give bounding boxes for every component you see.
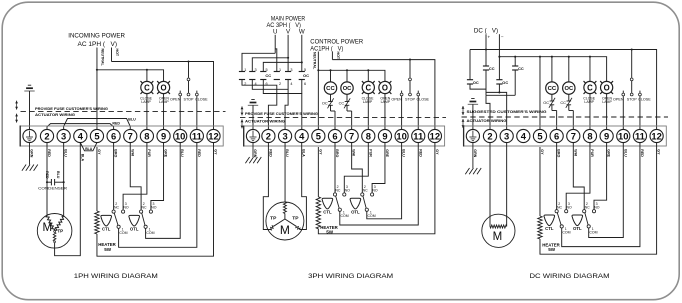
DC terminal 11	[633, 129, 646, 142]
svg-text:11: 11	[192, 131, 202, 142]
svg-text:SUGGESTED CUSTOMER'S WIRING: SUGGESTED CUSTOMER'S WIRING	[467, 110, 547, 114]
svg-text:NO: NO	[594, 205, 600, 209]
1PH internal earth symbol	[28, 84, 31, 86]
jumper BLA terminal 4 to terminal 5	[80, 143, 97, 151]
1PH terminal 7	[124, 129, 137, 142]
svg-text:GRE: GRE	[385, 149, 389, 157]
3PH terminal 11	[412, 129, 425, 142]
svg-text:COM: COM	[146, 231, 154, 235]
1PH terminal 12	[207, 129, 220, 142]
svg-text:CLOSE: CLOSE	[195, 98, 208, 102]
wire - bus drop to terminal 5 (DC)	[539, 57, 541, 130]
svg-text:7: 7	[349, 131, 354, 142]
DC terminal 6	[550, 129, 563, 142]
wire merge bar to terminal 2 (DC)	[486, 94, 515, 96]
wire lamp O to terminal 9	[163, 94, 165, 130]
svg-text:C: C	[144, 83, 150, 92]
DC terminal 10	[617, 129, 630, 142]
svg-text:LAMP: LAMP	[602, 100, 612, 104]
motor M (1PH)	[37, 214, 72, 249]
svg-text:1: 1	[279, 68, 281, 72]
svg-text:TP: TP	[57, 229, 63, 234]
wire RED run terminal 2 to terminal 6	[47, 124, 114, 130]
CTL limit switch (1PH) NC contact (pin 2)	[112, 210, 115, 213]
wire terminal 2 to motor	[46, 143, 48, 216]
svg-text:3: 3	[255, 68, 257, 72]
svg-text:GRN: GRN	[473, 149, 477, 157]
svg-text:TP: TP	[292, 216, 299, 222]
svg-text:NO: NO	[345, 189, 351, 193]
wire riser OC contact left	[469, 50, 471, 80]
svg-text:BLU: BLU	[285, 149, 289, 157]
wire terminal 8 to CTL NO	[123, 143, 147, 210]
1PH terminal 9	[157, 129, 170, 142]
svg-text:STOP: STOP	[184, 98, 195, 102]
svg-text:12: 12	[208, 131, 218, 142]
wire U to OC contact 1	[275, 49, 277, 72]
wire terminal 9 to OTL NO (3PH)	[372, 143, 385, 193]
3PH terminal 3	[278, 129, 291, 142]
svg-text:PROVIDE FUSE CUSTOMER'S WIRING: PROVIDE FUSE CUSTOMER'S WIRING	[245, 112, 318, 116]
wire control HOT stub	[331, 52, 333, 60]
svg-text:OTL: OTL	[351, 210, 360, 215]
wire riser CC contact right	[514, 57, 516, 66]
heater feed from terminal 5 (DC)	[539, 147, 541, 216]
svg-text:BRO: BRO	[114, 149, 118, 157]
svg-text:10: 10	[396, 131, 406, 142]
svg-text:ACTUATOR WIRING: ACTUATOR WIRING	[35, 113, 75, 117]
wire colour labels below strip DC	[473, 149, 661, 157]
DC ground terminal	[466, 129, 479, 142]
CTL limit switch (DC) blade COM-NC	[557, 213, 561, 225]
svg-text:CC: CC	[560, 100, 566, 105]
OTL limit switch (3PH) NC contact (pin 2)	[361, 193, 364, 196]
wire lamp C to terminal 8	[146, 94, 148, 130]
DC terminal 3	[500, 129, 513, 142]
svg-text:5: 5	[94, 131, 99, 142]
svg-text:3PH WIRING DIAGRAM: 3PH WIRING DIAGRAM	[308, 273, 393, 280]
svg-text:GY: GY	[435, 149, 439, 155]
svg-text:WHI: WHI	[352, 149, 356, 156]
wire OTL COM to terminal 10 (DC)	[589, 143, 624, 238]
wire CTL COM to terminal 11 (DC)	[562, 143, 640, 247]
svg-text:BRO: BRO	[335, 149, 339, 157]
3PH terminal 7	[345, 129, 358, 142]
svg-text:GY: GY	[657, 149, 661, 155]
thermal protector TP (1PH)	[54, 231, 56, 233]
svg-text:CC: CC	[339, 101, 345, 106]
wire colour labels below strip 3PH	[253, 149, 439, 157]
svg-text:1: 1	[244, 68, 246, 72]
svg-text:3: 3	[61, 131, 66, 142]
wire terminal 2 to motor bracket left	[263, 143, 270, 230]
contactor main contact OC pole 3-4	[285, 68, 292, 86]
svg-text:2: 2	[44, 131, 49, 142]
svg-text:GRE: GRE	[607, 149, 611, 157]
svg-text:RED: RED	[418, 149, 422, 157]
OTL limit switch (1PH) NO contact (pin 3)	[149, 210, 152, 213]
wire terminal 7 to OTL NC (3PH)	[352, 143, 363, 193]
1PH terminal 5	[90, 129, 103, 142]
wire merge contacts 2 to terminal 2	[242, 80, 277, 130]
svg-text:AC 3PH ( V): AC 3PH ( V)	[267, 22, 301, 29]
svg-text:U: U	[273, 28, 277, 35]
push button OPEN (1PH)	[179, 91, 182, 130]
3PH terminal 4	[295, 129, 308, 142]
indicator lamp CLOSE LAMP (3PH)	[362, 81, 375, 94]
CTL limit switch (3PH) NC contact (pin 2)	[333, 193, 336, 196]
svg-text:8: 8	[587, 131, 592, 142]
wire phase V	[287, 35, 289, 72]
CTL limit switch (3PH) blade COM-NC	[336, 196, 340, 208]
svg-text:STOP: STOP	[627, 98, 638, 102]
svg-text:12: 12	[430, 131, 440, 142]
CTL limit switch (3PH) COM contact (pin 1)	[338, 208, 341, 211]
1PH protective earth (hatched ground)	[29, 143, 31, 165]
DC terminal 9	[600, 129, 613, 142]
DC terminal 7	[567, 129, 580, 142]
svg-text:NC: NC	[585, 205, 591, 209]
1PH ground terminal	[23, 129, 36, 142]
motor winding centre (3PH)	[283, 202, 286, 214]
svg-text:8: 8	[366, 131, 371, 142]
svg-text:LAMP: LAMP	[381, 100, 391, 104]
DC protective earth (hatched ground)	[472, 143, 474, 168]
CTL limit switch (DC) NO contact (pin 3)	[565, 210, 568, 213]
wire terminal 6 to CTL NC (3PH)	[334, 143, 336, 193]
svg-text:COM: COM	[341, 214, 349, 218]
DC boundary arrows	[462, 106, 464, 115]
svg-text:6: 6	[304, 82, 306, 86]
wire W to CC contact 5	[263, 62, 302, 71]
3PH terminal 2	[262, 129, 275, 142]
svg-text:OC: OC	[343, 86, 352, 92]
svg-text:RED: RED	[45, 171, 49, 179]
push button OPEN (DC)	[622, 91, 625, 130]
svg-text:NO: NO	[151, 206, 157, 210]
svg-text:+: +	[487, 34, 490, 39]
push button CLOSE (3PH)	[417, 91, 420, 130]
wire terminal 7 to OTL NC	[130, 143, 141, 210]
svg-text:6: 6	[111, 131, 116, 142]
svg-text:8: 8	[144, 131, 149, 142]
wire merge contacts 6 to terminal 4	[263, 80, 302, 130]
svg-text:4: 4	[78, 131, 84, 142]
heater 5W resistor (DC)	[538, 216, 542, 239]
contactor coil CC (DC)	[546, 82, 558, 94]
svg-text:5: 5	[266, 68, 268, 72]
svg-text:CLOSE: CLOSE	[638, 98, 651, 102]
svg-text:5: 5	[304, 68, 306, 72]
svg-text:NC: NC	[335, 189, 341, 193]
svg-text:RED: RED	[197, 149, 201, 157]
svg-text:PROVIDE FUSE CUSTOMER'S WIRING: PROVIDE FUSE CUSTOMER'S WIRING	[35, 107, 108, 111]
svg-text:RED: RED	[112, 122, 120, 126]
svg-text:HOT: HOT	[336, 52, 340, 60]
1PH terminal 4	[74, 129, 87, 142]
svg-text:OC: OC	[565, 86, 574, 92]
wire CC pole a bottom	[485, 70, 487, 95]
svg-text:BLU: BLU	[128, 117, 136, 121]
wire OC pole b bottom to terminal 3 (DC)	[498, 84, 500, 92]
wire terminal 3 to motor (DC)	[506, 143, 508, 227]
svg-text:M: M	[493, 231, 503, 243]
contactor main contact OC pole 5-6	[299, 68, 306, 86]
svg-text:CC: CC	[489, 66, 495, 71]
svg-text:6: 6	[554, 131, 559, 142]
1PH boundary arrows	[16, 101, 18, 110]
wire lamp O to terminal 9 (DC)	[606, 94, 608, 130]
CTL limit switch (1PH) cam	[101, 215, 112, 226]
svg-text:WHI: WHI	[573, 149, 577, 156]
1PH terminal 2	[40, 129, 53, 142]
svg-text:7: 7	[128, 131, 133, 142]
wire merge contacts 4 to terminal 3	[252, 80, 288, 130]
wire lamp C drop (DC)	[589, 57, 591, 82]
svg-text:CTL: CTL	[102, 227, 111, 232]
svg-text:3: 3	[290, 68, 292, 72]
1PH terminal 3	[57, 129, 70, 142]
indicator lamp OPEN LAMP (3PH)	[379, 81, 392, 94]
heater feed from terminal 5 (3PH)	[317, 147, 319, 197]
indicator lamp CLOSE LAMP (DC)	[584, 81, 597, 94]
svg-text:BLA: BLA	[80, 154, 84, 162]
1PH terminal 6	[107, 129, 120, 142]
svg-text:NO: NO	[566, 205, 572, 209]
svg-text:ACTUATOR WIRING: ACTUATOR WIRING	[467, 119, 507, 123]
wire terminal 9 to OTL NO	[151, 143, 164, 210]
wire phase U	[274, 35, 276, 54]
push button STOP (DC) (NC)	[630, 50, 633, 96]
svg-text:W: W	[299, 28, 305, 35]
terminal strip 3PH	[244, 126, 445, 146]
svg-text:OPEN: OPEN	[613, 98, 624, 102]
wire terminal 6 to CTL NC	[113, 143, 115, 210]
3PH terminal 12	[428, 129, 441, 142]
svg-text:CLOSE: CLOSE	[416, 98, 429, 102]
svg-text:BLU: BLU	[623, 149, 627, 157]
OTL limit switch (DC) NC contact (pin 2)	[583, 210, 586, 213]
svg-text:PUR: PUR	[590, 149, 594, 157]
svg-text:O: O	[604, 83, 610, 92]
motor armature winding (DC)	[490, 225, 507, 228]
svg-text:11: 11	[635, 131, 645, 142]
1PH terminal 8	[140, 129, 153, 142]
svg-text:GRN: GRN	[30, 149, 34, 157]
contactor coil OC	[341, 82, 353, 94]
motor arm right with TP	[285, 219, 296, 226]
motor arm left with TP	[274, 219, 285, 226]
CTL limit switch (DC) COM contact (pin 1)	[560, 225, 563, 228]
auxiliary NC interlock contact CC aux under OC coil (DC)	[566, 94, 574, 129]
svg-text:OPEN: OPEN	[170, 98, 181, 102]
wire lamp O to terminal 9 (3PH)	[384, 94, 386, 130]
DC terminal 4	[517, 129, 530, 142]
wire control NEUTRAL to terminal 5	[317, 52, 319, 130]
svg-text:2: 2	[487, 131, 492, 142]
contactor main contact OC pole 1-2	[274, 68, 281, 86]
svg-text:4: 4	[299, 131, 305, 142]
wire terminal 6 to CTL NC (DC)	[556, 143, 558, 210]
svg-text:3: 3	[282, 131, 287, 142]
wire terminal 4 to motor bracket right	[299, 143, 306, 230]
svg-text:M: M	[43, 222, 53, 234]
1PH terminal 11	[190, 129, 203, 142]
svg-text:−: −	[501, 35, 504, 40]
svg-text:PUR: PUR	[147, 149, 151, 157]
contactor coil CC	[324, 82, 336, 94]
indicator lamp CLOSE LAMP (1PH)	[140, 81, 153, 94]
auxiliary NC interlock contact OC aux under CC coil (DC)	[549, 94, 557, 129]
wire + feed	[485, 34, 487, 66]
svg-text:GY: GY	[97, 149, 101, 155]
wire V to CC contact 3	[252, 58, 288, 72]
svg-text:TP: TP	[270, 216, 277, 222]
svg-text:GY: GY	[214, 149, 218, 155]
wire heater to terminal 12 return (3PH)	[318, 143, 435, 234]
wire terminal 2 to motor (DC)	[489, 143, 491, 227]
svg-text:LAMP: LAMP	[159, 100, 169, 104]
wire HOT feed stub	[111, 48, 113, 62]
3PH terminal 5	[312, 129, 325, 142]
3PH customer/actuator boundary dashed line	[240, 116, 446, 118]
wire OC pole bottoms	[287, 80, 289, 90]
svg-text:7: 7	[571, 131, 576, 142]
svg-text:NEUTRAL: NEUTRAL	[313, 52, 317, 70]
wire U to CC contact 1	[242, 53, 275, 71]
svg-text:OC: OC	[543, 100, 549, 105]
contactor main contact CC pole 1-2	[239, 68, 246, 86]
wire OC coil drop (DC)	[568, 57, 570, 82]
svg-text:NO: NO	[372, 189, 378, 193]
svg-text:M: M	[280, 223, 290, 237]
wire lamp C drop (3PH)	[367, 70, 369, 81]
DC internal earth symbol	[471, 98, 474, 100]
3PH protective earth (hatched ground)	[252, 143, 254, 157]
svg-text:10: 10	[618, 131, 628, 142]
wire - feed	[498, 34, 500, 79]
wire terminal 7 to OTL NC (DC)	[573, 143, 584, 210]
3PH terminal 8	[362, 129, 375, 142]
wire terminal 8 to CTL NO (DC)	[566, 143, 590, 210]
svg-text:CC: CC	[265, 73, 271, 78]
svg-text:RED: RED	[640, 149, 644, 157]
svg-text:AC 1PH ( V): AC 1PH ( V)	[78, 41, 118, 48]
wire OC coil drop	[346, 70, 348, 82]
CTL limit switch (1PH) COM contact (pin 1)	[117, 225, 120, 228]
svg-text:NC: NC	[141, 206, 147, 210]
OTL limit switch (3PH) NO contact (pin 3)	[371, 193, 374, 196]
CTL limit switch (3PH) NO contact (pin 3)	[343, 193, 346, 196]
svg-text:CC: CC	[518, 66, 524, 71]
svg-text:BLU: BLU	[64, 149, 68, 157]
wire lamp C drop	[146, 70, 148, 82]
wire OC pole a bottom + bar	[470, 84, 486, 89]
svg-text:COM: COM	[562, 231, 570, 235]
motor M (DC)	[482, 214, 515, 247]
indicator lamp OPEN LAMP (1PH)	[157, 81, 170, 94]
OTL limit switch (1PH) cam	[129, 215, 140, 226]
OTL limit switch (DC) NO contact (pin 3)	[592, 210, 595, 213]
svg-text:NO: NO	[123, 206, 129, 210]
svg-text:WHI: WHI	[130, 149, 134, 156]
svg-text:CC: CC	[326, 86, 335, 92]
OTL limit switch (1PH) NC contact (pin 2)	[140, 210, 143, 213]
svg-text:O: O	[382, 83, 388, 92]
svg-text:ACTUATOR WIRING: ACTUATOR WIRING	[245, 119, 285, 123]
svg-text:6: 6	[332, 131, 337, 142]
DC terminal 5	[533, 129, 546, 142]
wire OTL COM to terminal 10 (3PH)	[367, 143, 402, 219]
svg-text:11: 11	[413, 131, 423, 142]
svg-text:BLU: BLU	[56, 171, 60, 179]
svg-text:NC: NC	[114, 206, 120, 210]
contactor contact CC pole a (DC)	[483, 66, 495, 71]
push button CLOSE (DC)	[639, 91, 642, 130]
svg-text:DC ( V): DC ( V)	[474, 27, 498, 34]
svg-text:BLU: BLU	[402, 149, 406, 157]
svg-text:O: O	[161, 83, 167, 92]
DC terminal 8	[583, 129, 596, 142]
svg-text:NEUTRAL: NEUTRAL	[100, 49, 104, 67]
svg-text:4: 4	[290, 82, 292, 86]
svg-text:GRN: GRN	[253, 149, 257, 157]
OTL limit switch (1PH) COM contact (pin 1)	[144, 225, 147, 228]
wire CTL COM to terminal 11	[119, 143, 197, 248]
OTL limit switch (DC) cam	[572, 215, 583, 226]
wire colour labels below strip 1PH	[30, 149, 218, 161]
DC terminal 12	[650, 129, 663, 142]
OTL limit switch (3PH) blade COM-NC	[363, 196, 366, 208]
wire terminal 9 to OTL NO (DC)	[594, 143, 607, 210]
svg-text:3: 3	[504, 131, 509, 142]
svg-text:DC WIRING DIAGRAM: DC WIRING DIAGRAM	[530, 273, 610, 280]
svg-text:CONDENSER: CONDENSER	[38, 186, 67, 190]
wire CC coil drop	[330, 70, 332, 82]
svg-text:BRO: BRO	[557, 149, 561, 157]
push button STOP (3PH) (NC)	[409, 60, 412, 96]
3PH terminal 10	[395, 129, 408, 142]
svg-text:5: 5	[316, 131, 321, 142]
wire neutral branch to lamps	[97, 70, 164, 82]
svg-text:OC: OC	[502, 80, 508, 85]
wire BLU run terminal 3 to terminal 7	[64, 119, 131, 130]
svg-text:CTL: CTL	[323, 210, 332, 215]
svg-text:HOT: HOT	[115, 49, 119, 57]
svg-text:CTL: CTL	[545, 226, 554, 231]
terminal strip DC	[464, 126, 667, 146]
svg-text:5: 5	[537, 131, 542, 142]
svg-text:9: 9	[161, 131, 166, 142]
svg-text:NC: NC	[557, 205, 563, 209]
wire terminal 8 to CTL NO (3PH)	[344, 143, 368, 193]
svg-text:5W: 5W	[548, 247, 556, 252]
svg-text:OPEN: OPEN	[391, 98, 402, 102]
wire lamp C to terminal 8 (DC)	[589, 94, 591, 130]
contactor main contact CC pole 3-4	[249, 68, 256, 86]
svg-text:2: 2	[279, 82, 281, 86]
CTL limit switch (1PH) NO contact (pin 3)	[122, 210, 125, 213]
motor M winding right	[55, 217, 63, 231]
OTL limit switch (DC) COM contact (pin 1)	[587, 225, 590, 228]
wire motor bottom to terminal 4	[55, 143, 81, 256]
svg-text:GY: GY	[318, 149, 322, 155]
svg-text:COM: COM	[368, 214, 376, 218]
svg-text:10: 10	[175, 131, 185, 142]
auxiliary NC interlock contact OC aux under CC coil	[328, 94, 336, 129]
svg-text:9: 9	[604, 131, 609, 142]
svg-text:9: 9	[382, 131, 387, 142]
